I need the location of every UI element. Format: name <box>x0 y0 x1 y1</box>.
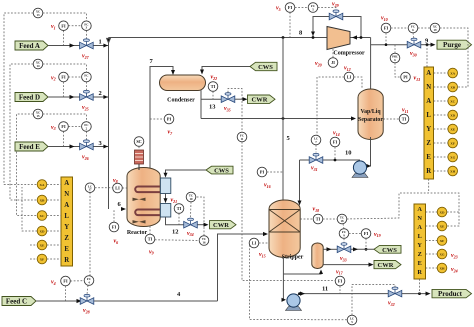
wire: dashed TC18 right loop to analyzers <box>347 193 459 226</box>
wire: dashed XC14 to FC1 <box>43 64 87 72</box>
wire: dashed analyzer2 to product line <box>419 279 421 294</box>
wire: dashed analyzer2 to circles <box>426 212 438 268</box>
svg-text:LI: LI <box>115 186 120 191</box>
svg-text:v28: v28 <box>83 308 90 314</box>
wire: dashed XF stub <box>30 258 37 260</box>
wire: condenser outlet down <box>200 90 202 119</box>
controller XC13 <box>33 8 43 18</box>
svg-text:14: 14 <box>37 64 41 68</box>
svg-text:v17: v17 <box>336 269 344 275</box>
instrument TI separator <box>399 114 409 124</box>
wire: dashed FI-FC2 <box>68 126 81 128</box>
wire: dashed PI to stream 5 <box>267 171 283 173</box>
instrument TI reactor bottom <box>145 234 155 244</box>
svg-text:XD: XD <box>440 210 445 214</box>
svg-text:13: 13 <box>209 104 216 111</box>
valve v26 <box>80 140 94 150</box>
instrument FI feed E <box>59 122 69 132</box>
wire: dashed FC6 to v30 <box>412 33 415 38</box>
wire: to product box <box>402 293 429 295</box>
wire: dashed LI down to LC5 <box>250 245 347 320</box>
svg-text:A: A <box>426 70 431 77</box>
wire: dashed LC5 to v32 <box>352 285 395 316</box>
wire: compressor inlet from separator <box>350 37 371 39</box>
instrument LI reactor <box>113 183 123 193</box>
svg-text:v25: v25 <box>82 105 89 111</box>
svg-text:E: E <box>64 246 69 253</box>
wire: CW outlet stream 12 <box>166 217 184 225</box>
wire: dashed FC4 to v28 <box>87 285 88 294</box>
reactor stirrer blades <box>133 198 146 201</box>
Purge box <box>437 40 472 49</box>
instrument PI stripper <box>257 167 267 177</box>
svg-text:Z: Z <box>64 235 69 242</box>
reboiler <box>312 243 323 269</box>
CWR box condenser <box>248 95 276 103</box>
svg-text:XF: XF <box>450 141 455 145</box>
valve v33 <box>337 243 351 253</box>
svg-text:CWR: CWR <box>213 222 229 229</box>
instrument FI steam <box>361 229 371 239</box>
svg-text:R: R <box>64 257 69 264</box>
wire: dashed FC3 to valve v27 <box>85 31 87 39</box>
Feed C box <box>2 297 36 306</box>
svg-text:Y: Y <box>64 224 69 231</box>
analyzer left sample circles XA-XF <box>37 180 47 264</box>
reactor coil lower <box>135 210 163 216</box>
valve v30 <box>407 38 421 48</box>
svg-text:XH: XH <box>450 169 455 173</box>
wire: dashed FI down to line 8 <box>289 12 291 37</box>
svg-text:v11: v11 <box>402 108 408 114</box>
wire: dashed TI down <box>212 91 214 99</box>
CWS box reactor <box>206 166 233 174</box>
wire: dashed FI down <box>63 31 65 46</box>
wire: dashed FC9 to v33 <box>343 238 345 243</box>
svg-text:v15: v15 <box>259 252 266 258</box>
instrument TI condenser <box>208 82 218 92</box>
svg-text:11: 11 <box>322 286 328 293</box>
pump stripper <box>286 294 302 311</box>
wire: dashed purge FI-FC6-XC19 <box>391 27 408 29</box>
wire: reboiler circulation <box>283 271 321 274</box>
svg-text:Z: Z <box>426 140 431 147</box>
analyzer left box <box>61 177 73 266</box>
wire: condenser to separator line <box>201 118 354 120</box>
svg-text:XA: XA <box>450 71 455 75</box>
svg-text:XC: XC <box>450 99 455 103</box>
svg-text:L: L <box>64 213 69 220</box>
svg-text:XF: XF <box>40 257 45 261</box>
svg-text:A: A <box>417 224 422 231</box>
svg-text:Feed D: Feed D <box>19 94 40 102</box>
CWS box condenser <box>250 62 277 70</box>
analyzer bottom right circles XD-XH <box>437 207 447 273</box>
svg-text:XG: XG <box>450 155 455 159</box>
svg-text:18: 18 <box>341 219 345 223</box>
wire: dashed TC10 to v34 <box>190 202 193 218</box>
wire: dashed XC13 left <box>4 13 37 185</box>
CWR box stripper <box>374 261 401 269</box>
wire: dashed LI to reactor <box>122 187 127 189</box>
svg-text:Y: Y <box>417 242 422 249</box>
svg-text:XD: XD <box>450 113 455 117</box>
instrument LI stripper <box>249 238 259 248</box>
svg-text:E: E <box>418 260 422 267</box>
svg-text:CWS: CWS <box>258 64 273 71</box>
svg-text:v16: v16 <box>264 183 271 189</box>
Product box <box>432 289 472 297</box>
svg-text:L: L <box>418 233 422 240</box>
wire: dashed purge to PHC6 and PI <box>394 45 396 54</box>
wire: dashed FC5 to valve v29 <box>318 8 336 11</box>
wire: dashed purge sample to analyzer <box>426 45 428 67</box>
wire: dashed PI to stream7 <box>150 118 164 120</box>
svg-text:XF: XF <box>440 239 445 243</box>
wire: dashed TC18 to FC9 <box>343 224 344 229</box>
svg-text:TI: TI <box>177 206 182 211</box>
svg-text:PI: PI <box>403 75 408 80</box>
wire: stripper bottoms <box>282 257 284 300</box>
svg-text:Feed C: Feed C <box>6 298 27 306</box>
controller FC4 <box>84 276 94 286</box>
controller TC18 stripper <box>337 214 347 224</box>
svg-text:v13: v13 <box>414 76 421 82</box>
controller TC10 <box>186 192 196 202</box>
controller XC19 <box>430 23 440 33</box>
svg-text:v18: v18 <box>313 207 320 213</box>
CWR box reactor <box>210 221 237 229</box>
wire: dashed FI purge down <box>385 33 387 45</box>
stripper packing <box>269 210 300 233</box>
valve v34 <box>184 218 198 228</box>
controller XC15 <box>33 109 43 119</box>
instrument PI reactor line <box>164 114 174 124</box>
svg-text:v35: v35 <box>224 106 231 112</box>
svg-text:TI: TI <box>316 217 321 222</box>
instrument FI stream6 <box>109 222 119 232</box>
svg-text:CWS: CWS <box>214 168 229 175</box>
wire: purge line stream 9 <box>371 44 408 46</box>
instrument FI feed D <box>59 72 69 82</box>
wire: feed D line <box>48 96 109 98</box>
svg-text:Z: Z <box>418 251 422 258</box>
wire: dashed FI-FC5 <box>295 7 308 9</box>
valve v31 <box>309 153 323 163</box>
svg-text:FI: FI <box>384 26 389 31</box>
wire: dashed circles to analyzer left <box>47 185 61 260</box>
wire: reactor overhead stream 7 <box>150 67 173 172</box>
wire: reboiler CW return <box>323 264 371 266</box>
svg-text:1: 1 <box>99 39 102 46</box>
controller XC14 <box>33 59 43 69</box>
controller FC5 <box>308 3 318 13</box>
controller LC5 <box>347 315 357 325</box>
analyzer top right circles XA-XH <box>448 68 458 176</box>
wire: dashed FI down <box>63 82 65 97</box>
wire: dashed XC13 to FC3 <box>43 13 87 21</box>
svg-text:XE: XE <box>450 127 455 131</box>
svg-text:LI: LI <box>252 241 257 246</box>
wire: dashed FI down to line 10 <box>334 147 336 160</box>
instrument LI separator <box>344 72 354 82</box>
analyzer top right box <box>424 67 434 179</box>
wire: dashed FI-FC1 <box>68 76 81 78</box>
svg-text:FI: FI <box>61 75 66 80</box>
svg-text:CWR: CWR <box>252 97 268 104</box>
svg-text:TI: TI <box>211 84 216 89</box>
junction stream 5 joins recycle <box>282 36 285 39</box>
svg-text:Separator: Separator <box>358 117 383 123</box>
controller TC16 reactor <box>199 236 209 246</box>
svg-text:N: N <box>64 191 69 198</box>
reactor cooling box upper <box>160 178 170 194</box>
controller PHC6 <box>390 53 400 63</box>
svg-text:10: 10 <box>190 197 194 201</box>
wire: stripper overhead stream 5 <box>282 38 284 202</box>
svg-text:CWS: CWS <box>382 247 397 254</box>
instrument FI product <box>335 276 345 286</box>
svg-text:A: A <box>64 202 69 209</box>
svg-text:Product: Product <box>438 290 463 298</box>
svg-text:FI: FI <box>63 279 68 284</box>
svg-text:v2: v2 <box>51 75 56 81</box>
instrument FI recycle <box>285 3 295 13</box>
wire: dashed XD loop stub <box>447 211 459 213</box>
svg-text:11: 11 <box>241 137 244 141</box>
wire: dashed FC11 down to product FI <box>242 142 335 281</box>
svg-text:19: 19 <box>434 28 438 32</box>
wire: dashed LI separator left elbow <box>317 77 344 135</box>
wire: dashed TC16 up to TC10 <box>196 197 204 236</box>
svg-text:v29: v29 <box>332 2 339 8</box>
wire: feed E line <box>48 146 109 148</box>
wire: dashed TI to TC16 <box>155 239 199 242</box>
svg-text:TI: TI <box>148 237 153 242</box>
svg-text:Condenser: Condenser <box>167 98 195 104</box>
svg-text:Feed A: Feed A <box>19 42 40 50</box>
svg-text:FI: FI <box>288 5 293 10</box>
svg-text:FI: FI <box>364 231 369 236</box>
svg-text:R: R <box>426 168 431 175</box>
wire: dashed LC17 to LI <box>95 187 113 189</box>
svg-text:Compressor: Compressor <box>333 51 365 57</box>
wire: feed collection vertical line <box>108 38 110 210</box>
wire: dashed TI to TC18 <box>323 218 337 220</box>
svg-text:TI: TI <box>402 117 407 122</box>
analyzer bottom right box <box>414 204 426 279</box>
svg-text:v20: v20 <box>315 61 322 67</box>
wire: dashed LC17 down to FC4 <box>89 193 91 276</box>
svg-text:v21: v21 <box>171 198 178 204</box>
wire: dashed XD left loop <box>22 187 37 231</box>
svg-text:L: L <box>426 112 431 119</box>
svg-text:A: A <box>417 206 422 213</box>
svg-text:Y: Y <box>426 126 431 133</box>
svg-text:FI: FI <box>112 225 117 230</box>
wire: product line stream 11 <box>297 294 388 296</box>
valve v27 <box>80 39 94 49</box>
svg-text:N: N <box>426 84 431 91</box>
Feed A box <box>15 41 48 50</box>
controller LC17 <box>85 183 95 193</box>
separator vessel <box>358 89 383 140</box>
controller FC3 <box>82 21 92 31</box>
svg-text:XE: XE <box>40 243 45 247</box>
svg-text:LI: LI <box>347 75 352 80</box>
wire: CWS to condenser <box>202 67 250 73</box>
svg-text:v26: v26 <box>82 155 89 161</box>
svg-text:2: 2 <box>99 90 102 97</box>
wire: stream 10 into stripper top <box>299 160 301 203</box>
svg-text:v34: v34 <box>187 231 194 237</box>
CWS box stripper <box>374 245 401 253</box>
instrument TI jacket <box>174 204 184 214</box>
svg-text:XB: XB <box>450 85 455 89</box>
instrument SC agitator <box>134 137 144 147</box>
wire: CWS steam line to reboiler <box>323 248 337 250</box>
wire: dashed FC1 to valve v25 <box>85 82 87 90</box>
svg-text:v23: v23 <box>451 253 458 259</box>
svg-text:v19: v19 <box>374 232 381 238</box>
controller FC1 <box>82 72 92 82</box>
wire: dashed analyzer to circles <box>434 73 448 171</box>
svg-text:XE: XE <box>440 224 445 228</box>
reactor cooling box lower <box>160 204 170 218</box>
svg-text:v10: v10 <box>381 16 388 22</box>
instrument TI stripper <box>313 214 323 224</box>
wire: dashed FI down <box>365 238 367 249</box>
wire: dashed separator to TI <box>383 118 399 120</box>
wire: reactor feed stream 6 <box>109 208 125 210</box>
wire: dashed FI down <box>63 131 65 146</box>
compressor <box>327 27 350 50</box>
wire: dashed SC to motor <box>138 146 140 150</box>
svg-text:JI: JI <box>331 60 335 65</box>
valve v28 <box>80 294 94 304</box>
svg-text:v31: v31 <box>311 166 318 172</box>
svg-text:SC: SC <box>136 139 141 144</box>
svg-text:FI: FI <box>333 140 338 145</box>
svg-text:v5: v5 <box>276 6 281 12</box>
svg-text:17: 17 <box>89 188 93 192</box>
wire: dashed LC7 to valve v31 <box>315 145 317 153</box>
instrument JI <box>328 58 338 68</box>
wire: compressor bypass loop <box>313 17 361 38</box>
wire: dashed FI product down <box>339 286 341 294</box>
svg-text:v4: v4 <box>51 280 56 286</box>
wire: dashed compressor to JI <box>332 49 334 58</box>
wire: CWS to box <box>166 170 207 176</box>
wire: dashed v35 to FC11 long loop <box>228 89 242 133</box>
svg-text:v32: v32 <box>388 301 395 307</box>
wire: dashed reactor to TI <box>149 226 151 234</box>
wire: recycle header stream 8 <box>109 37 328 39</box>
wire: dashed LI to separator <box>354 77 362 88</box>
instrument FI feed A <box>59 21 69 31</box>
svg-text:R: R <box>417 269 422 276</box>
condenser <box>160 75 206 91</box>
svg-text:v24: v24 <box>451 267 458 273</box>
wire: feed A line <box>48 45 109 47</box>
wire: feed C riser into stripper <box>218 234 267 301</box>
svg-text:E: E <box>426 154 431 161</box>
wire: dashed TI jacket down <box>178 213 180 224</box>
svg-text:PI: PI <box>167 117 172 122</box>
wire: dashed XE stub <box>30 244 37 246</box>
svg-text:N: N <box>417 215 422 222</box>
reactor coil upper <box>135 187 163 193</box>
reactor vessel <box>127 168 160 227</box>
instrument FI feed C <box>61 276 71 286</box>
svg-text:10: 10 <box>345 150 352 157</box>
instrument PI separator <box>401 72 411 82</box>
wire: condenser CW return stream 13 <box>201 98 221 100</box>
wire: dashed XC19 loop to XB <box>440 28 468 87</box>
svg-text:13: 13 <box>37 13 41 17</box>
Feed E box <box>15 142 48 151</box>
wire: dashed LI to stripper <box>259 242 269 244</box>
Feed D box <box>15 93 48 102</box>
wire: dashed XC15 to FC2 <box>43 114 87 122</box>
svg-text:Purge: Purge <box>443 41 461 49</box>
svg-text:XB: XB <box>40 198 45 202</box>
instrument FI stream10 <box>330 137 340 147</box>
wire: separator vapor riser <box>370 38 372 90</box>
controller FC2 <box>82 122 92 132</box>
valve v32 <box>388 287 402 297</box>
svg-text:Reactor: Reactor <box>127 230 148 236</box>
svg-text:XH: XH <box>439 266 444 270</box>
svg-text:A: A <box>64 180 69 187</box>
svg-text:v9: v9 <box>149 249 154 255</box>
wire: separator bottoms <box>368 137 371 166</box>
wire: dashed stripper to TI <box>300 218 313 220</box>
controller LC7 <box>311 135 321 145</box>
svg-text:v6: v6 <box>114 239 119 245</box>
wire: dashed XC14 left <box>10 64 37 200</box>
svg-text:v33: v33 <box>340 256 347 262</box>
wire: dashed FC2 to valve v26 <box>85 131 87 139</box>
valve v29 <box>329 10 343 20</box>
svg-text:CWR: CWR <box>378 262 394 269</box>
wire: dashed FI down <box>65 286 67 301</box>
svg-text:v1: v1 <box>51 24 56 30</box>
svg-text:v8: v8 <box>113 178 118 184</box>
svg-text:12: 12 <box>172 229 179 236</box>
svg-text:Vap/Liq: Vap/Liq <box>360 109 381 115</box>
svg-text:v27: v27 <box>82 54 90 60</box>
svg-text:15: 15 <box>37 114 41 118</box>
svg-text:v3: v3 <box>51 125 56 131</box>
svg-text:FI: FI <box>338 279 343 284</box>
svg-text:v22: v22 <box>211 75 218 81</box>
wire: dashed analyzer1 bottom <box>428 179 430 193</box>
wire: feed C line stream 4 <box>36 300 80 302</box>
svg-text:v14: v14 <box>333 131 340 137</box>
wire: between cooling boxes <box>165 194 167 203</box>
controller FC9 <box>339 229 349 239</box>
svg-text:Feed E: Feed E <box>19 143 40 151</box>
controller FC11 <box>237 132 247 142</box>
svg-text:16: 16 <box>203 241 207 245</box>
reactor agitator motor <box>135 150 144 164</box>
svg-text:XD: XD <box>40 229 45 233</box>
valve v25 <box>80 90 94 100</box>
valve v35 <box>221 93 235 103</box>
wire: separator liquid stream 10 <box>300 159 361 161</box>
wire: dashed FI up to line6 <box>113 209 115 222</box>
